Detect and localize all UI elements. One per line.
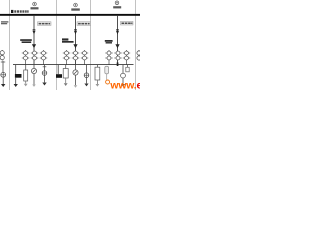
svg-text:www.e: www.e xyxy=(109,80,140,90)
